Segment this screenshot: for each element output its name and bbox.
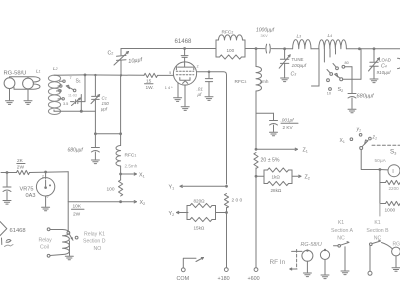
pointer to 6146B grid bbox=[0, 222, 7, 236]
plate supply bus wire bbox=[121, 48, 400, 50]
label S2 bbox=[338, 87, 344, 93]
svg-text:X2: X2 bbox=[140, 200, 146, 206]
svg-text:1mh: 1mh bbox=[260, 79, 269, 84]
svg-text:2W: 2W bbox=[17, 165, 25, 171]
label RG-58/U input coax bbox=[4, 71, 27, 77]
label 1mh bbox=[260, 79, 269, 84]
svg-text:3.5: 3.5 bbox=[63, 102, 68, 106]
svg-text:15kΩ: 15kΩ bbox=[194, 226, 205, 231]
junction dot VR75 top bbox=[44, 171, 47, 174]
tube VR75 pin 2 label bbox=[42, 175, 44, 179]
tube V1 pin 2 label bbox=[197, 65, 199, 69]
svg-text:C1: C1 bbox=[102, 96, 107, 101]
svg-text:TUNE: TUNE bbox=[292, 57, 304, 62]
chassis stub at COM bbox=[183, 258, 203, 268]
label S3 bbox=[390, 149, 397, 156]
ground under padder bbox=[348, 109, 356, 113]
label L3 bbox=[297, 34, 302, 40]
variable capacitor C2 bbox=[114, 49, 129, 76]
ground under tube beam pin bbox=[174, 98, 182, 102]
S1 band label 7 bbox=[70, 76, 72, 80]
tube V1 heater bbox=[183, 81, 188, 84]
svg-text:2 0 0: 2 0 0 bbox=[232, 198, 243, 204]
svg-text:2200: 2200 bbox=[389, 186, 400, 191]
tank coil L2 bbox=[48, 75, 60, 114]
svg-text:S1: S1 bbox=[76, 79, 81, 85]
test point arrow X2 bbox=[121, 200, 146, 206]
svg-text:1kΩ: 1kΩ bbox=[272, 174, 281, 179]
svg-text:L3: L3 bbox=[297, 34, 302, 40]
ground under filter cap bbox=[3, 201, 11, 205]
label RFC2 bbox=[222, 30, 234, 36]
svg-text:X1: X1 bbox=[340, 138, 345, 144]
label RF In bbox=[270, 259, 286, 266]
relay coil K1 bbox=[47, 228, 69, 257]
junction dot X1 bbox=[119, 173, 122, 176]
svg-text:+600: +600 bbox=[248, 276, 260, 282]
label VR75 0A3 bbox=[20, 187, 36, 200]
svg-text:RG-58/U: RG-58/U bbox=[4, 71, 27, 77]
label 2K 2W bbox=[17, 158, 25, 171]
choke RFC1 bbox=[116, 146, 121, 167]
section B lead to open jack bbox=[369, 246, 371, 272]
junction dot bus/C4 bbox=[373, 47, 376, 50]
ground under 680uuf grid cap bbox=[91, 160, 99, 164]
svg-text:z1: z1 bbox=[372, 135, 378, 141]
wire L2 top to grid line bbox=[54, 74, 86, 77]
relay K1 section B contact bbox=[370, 240, 393, 249]
svg-text:1000μμf: 1000μμf bbox=[256, 28, 275, 34]
label 15k ohm bbox=[194, 226, 205, 231]
label 820 ohm bbox=[194, 199, 206, 204]
label Relay Coil bbox=[39, 238, 53, 251]
svg-text:Relay: Relay bbox=[39, 238, 53, 244]
S1 band label 3.5 bbox=[63, 102, 68, 106]
svg-text:680μμf: 680μμf bbox=[68, 148, 84, 154]
svg-text:5: 5 bbox=[169, 71, 171, 75]
test point arrow Y1 bbox=[169, 185, 227, 191]
L4 tap lead 1 bbox=[312, 49, 320, 86]
resistor 1000 meter bbox=[380, 201, 400, 205]
wire shunt down bbox=[379, 204, 381, 217]
tube V1 beam plates bbox=[176, 66, 193, 70]
tube V1 screen grid (dashed) bbox=[176, 74, 194, 76]
capacitor .001uf 2KV bbox=[270, 121, 278, 132]
wire contact to ground bbox=[69, 241, 71, 256]
ground under cathode bbox=[181, 107, 189, 111]
resistor 2K 2W bbox=[17, 170, 30, 174]
tank coil L3 bbox=[293, 40, 311, 49]
wire 2K to VR75 bbox=[30, 171, 69, 174]
S2 contact a bbox=[333, 64, 338, 70]
resistor 100 grid bbox=[119, 180, 123, 196]
svg-text:5: 5 bbox=[47, 195, 49, 199]
link winding L1 / leads from jacks bbox=[10, 77, 41, 89]
S2 contact b bbox=[327, 70, 333, 76]
svg-text:L4: L4 bbox=[328, 33, 333, 39]
svg-text:80: 80 bbox=[345, 61, 349, 65]
label C1 150 uuf bbox=[100, 96, 109, 112]
svg-text:X1: X1 bbox=[139, 173, 145, 179]
svg-text:10: 10 bbox=[327, 92, 331, 96]
band switch S1 label bbox=[76, 79, 81, 85]
S2 contact 10 bbox=[327, 88, 332, 96]
wire L2 bottom return bbox=[54, 110, 95, 111]
label Relay K1 Section D NO bbox=[83, 232, 106, 253]
S1 trimmer capacitor bbox=[71, 98, 86, 106]
svg-text:RFC1: RFC1 bbox=[125, 153, 137, 159]
meter shunt wire bbox=[379, 170, 381, 204]
test point arrow Y2 bbox=[169, 211, 189, 217]
S3 contact Y1 bbox=[356, 127, 362, 137]
label 100 damping bbox=[227, 48, 235, 53]
svg-text:Z1: Z1 bbox=[303, 148, 308, 154]
svg-text:C4: C4 bbox=[381, 64, 387, 70]
svg-text:Section A: Section A bbox=[331, 228, 353, 234]
choke RFC3 bbox=[256, 49, 262, 150]
label C2 bbox=[108, 51, 114, 57]
svg-text:NC: NC bbox=[337, 236, 345, 242]
resistor 100 damping bbox=[216, 49, 245, 60]
S1 wiper arm bbox=[66, 85, 76, 92]
trimmer C1 bbox=[91, 75, 100, 134]
svg-text:1 4 *: 1 4 * bbox=[165, 86, 173, 90]
svg-text:1000: 1000 bbox=[385, 208, 396, 214]
variable capacitor C4 LOAD bbox=[369, 49, 380, 79]
label RG-58/U output bbox=[301, 242, 322, 248]
svg-text:10K: 10K bbox=[73, 204, 82, 210]
wire C1 bottom to RFC1 column bbox=[95, 133, 120, 135]
wire +180 feed bbox=[226, 208, 228, 268]
tank coil L2 label bbox=[53, 66, 58, 72]
tube VR75 pin 5 label bbox=[47, 195, 49, 199]
svg-text:7: 7 bbox=[70, 76, 72, 80]
label 61468 note bbox=[10, 228, 26, 234]
junction dot Y1 bbox=[225, 185, 228, 188]
resistor 15 ohm 1W bbox=[144, 73, 158, 77]
capacitor .01uf screen bypass bbox=[205, 72, 212, 96]
S2 contact 80 bbox=[342, 61, 352, 68]
label K1 Section A NC bbox=[331, 220, 353, 242]
ground under section D bbox=[65, 256, 73, 260]
section A lead to ground bbox=[344, 247, 346, 270]
svg-text:Z2: Z2 bbox=[305, 175, 310, 181]
svg-text:K1: K1 bbox=[338, 220, 344, 226]
S1 band label 11-93 bbox=[68, 93, 77, 97]
svg-text:28kΩ: 28kΩ bbox=[271, 188, 282, 193]
svg-text:100: 100 bbox=[227, 48, 235, 53]
svg-text:2.5mh: 2.5mh bbox=[125, 164, 138, 169]
label 28k ohm bbox=[271, 188, 282, 193]
label 1000 bbox=[385, 208, 396, 214]
svg-text:50μA: 50μA bbox=[375, 158, 387, 164]
junction dot bus/tube top cap bbox=[183, 47, 186, 50]
screen wire to +180 column bbox=[197, 72, 227, 184]
tank coil L4 bbox=[319, 40, 347, 49]
coax jack J3 bbox=[302, 249, 313, 272]
junction dot Y2 node bbox=[225, 211, 228, 214]
junction dot bus/RFC3 bbox=[255, 47, 258, 50]
wire 15ohm to grid pin bbox=[158, 74, 174, 76]
svg-text:Section B: Section B bbox=[366, 228, 389, 234]
label 10K 2W bbox=[72, 204, 85, 218]
ground under J5 bbox=[392, 268, 400, 272]
svg-text:COM: COM bbox=[177, 276, 190, 282]
test point arrow X1 bbox=[121, 173, 145, 179]
svg-text:RF In: RF In bbox=[270, 259, 286, 266]
ground under C4 bbox=[370, 79, 378, 83]
capacitor 680uuf padder bbox=[348, 94, 356, 109]
label 61468 tube bbox=[175, 38, 193, 45]
svg-text:RFC3: RFC3 bbox=[235, 79, 247, 85]
ground under J4 bbox=[321, 275, 329, 279]
S3 contact X1 bbox=[340, 138, 353, 144]
svg-text:C2: C2 bbox=[108, 51, 114, 57]
junction dot meter node bbox=[379, 168, 382, 171]
coax jack J4 bbox=[320, 249, 329, 274]
wire rotor to output node bbox=[343, 49, 361, 79]
label 2200 bbox=[389, 186, 400, 191]
L4 tap lead 2 bbox=[323, 49, 325, 62]
svg-text:Y2: Y2 bbox=[169, 211, 175, 217]
svg-text:L1: L1 bbox=[36, 69, 41, 75]
meter shunt 1k/28k box bbox=[256, 168, 292, 186]
label 10uuf bbox=[128, 57, 144, 65]
tube V1 envelope bbox=[173, 62, 196, 85]
junction dot screen bypass bbox=[208, 71, 211, 74]
junction dot Z2 node bbox=[255, 175, 258, 178]
dashed relay actuate link bbox=[290, 250, 297, 271]
svg-text:S3: S3 bbox=[390, 149, 397, 156]
ground under screen bypass cap bbox=[205, 97, 213, 101]
label RFC3 bbox=[235, 79, 247, 85]
wire trimmer right branch bbox=[84, 75, 86, 102]
label 1000uuf 3KV bbox=[256, 28, 275, 38]
svg-text:61468: 61468 bbox=[175, 38, 193, 45]
label 200 bbox=[232, 198, 243, 204]
junction dot Z1 bbox=[255, 148, 258, 151]
handwritten note squiggle bbox=[2, 238, 14, 247]
ground under 2KV cap bbox=[270, 132, 278, 136]
resistor 2200 meter bbox=[380, 180, 400, 184]
test point arrow Z2 bbox=[292, 175, 310, 181]
wire 80m tap to padder bbox=[351, 67, 353, 93]
S1 tap contact a bbox=[60, 80, 66, 82]
label 2.5mh bbox=[125, 164, 138, 169]
svg-text:Y1: Y1 bbox=[169, 185, 175, 191]
label 20+-5pct bbox=[261, 158, 280, 164]
resistor 20 ohm 5pct bbox=[254, 153, 258, 169]
coax jack J2 bbox=[23, 78, 34, 100]
relay K1 section D contact bbox=[67, 231, 78, 240]
label 1k ohm bbox=[272, 174, 281, 179]
filter cap at left edge bbox=[3, 173, 11, 200]
tube VR75/0A3 envelope bbox=[36, 178, 54, 196]
svg-text:RG-58/U: RG-58/U bbox=[301, 242, 322, 248]
wire S1 pivot down bbox=[80, 95, 82, 112]
tube V1 pins 1 4 label bbox=[165, 86, 173, 90]
label .001uf 2KV bbox=[281, 118, 299, 131]
wire to plate bypass cap bbox=[256, 113, 274, 120]
svg-text:100: 100 bbox=[107, 187, 115, 193]
svg-text:+180: +180 bbox=[218, 276, 230, 282]
meter shunt 820/15k box bbox=[187, 203, 227, 221]
resistor 200 ohm bbox=[224, 194, 228, 209]
svg-text:K1: K1 bbox=[374, 220, 380, 226]
junction dot VR rail left bbox=[6, 171, 9, 174]
capacitor 680uuf grid bbox=[91, 134, 99, 160]
variable capacitor C3 TUNE bbox=[279, 49, 290, 78]
svg-text:3KV: 3KV bbox=[261, 34, 269, 38]
svg-text:I: I bbox=[392, 169, 394, 175]
label 680uuf grid bbox=[68, 148, 84, 154]
svg-text:61468: 61468 bbox=[10, 228, 26, 234]
capacitor 1000uuf blocking bbox=[266, 44, 270, 53]
junction dot grid/C1 bbox=[94, 74, 96, 76]
svg-text:680μμf: 680μμf bbox=[357, 93, 375, 99]
svg-text:150: 150 bbox=[102, 101, 110, 106]
svg-text:VR75: VR75 bbox=[20, 187, 34, 193]
link winding L1 label bbox=[36, 69, 41, 75]
label 50uA bbox=[375, 158, 387, 164]
S3 contact Z1 bbox=[369, 135, 377, 141]
terminal COM bbox=[177, 268, 190, 282]
meter M1 bbox=[380, 165, 400, 177]
L4 tap lead 4 bbox=[335, 49, 337, 54]
svg-text:1W.: 1W. bbox=[146, 85, 154, 91]
svg-text:Coil: Coil bbox=[40, 245, 49, 251]
open terminal under section B bbox=[368, 271, 372, 275]
wire stub to jack bbox=[292, 250, 302, 252]
svg-text:2W: 2W bbox=[73, 212, 81, 218]
bias wire to relay bbox=[68, 201, 120, 203]
label TUNE C3 bbox=[291, 57, 307, 78]
choke RFC2 bbox=[216, 35, 245, 49]
svg-text:NO: NO bbox=[94, 246, 102, 252]
svg-text:Section D: Section D bbox=[83, 239, 106, 245]
svg-text:11-93: 11-93 bbox=[68, 93, 77, 97]
terminal +600 bbox=[248, 268, 260, 282]
junction dot grid return bbox=[119, 132, 122, 135]
wire +600 feed bbox=[255, 168, 257, 268]
svg-text:Relay K1: Relay K1 bbox=[84, 232, 105, 238]
svg-text:μf: μf bbox=[197, 92, 203, 97]
svg-text:y1: y1 bbox=[356, 127, 362, 133]
label 680uuf padder bbox=[357, 93, 375, 99]
svg-text:100μμf: 100μμf bbox=[292, 63, 307, 69]
svg-text:10μμf: 10μμf bbox=[128, 57, 144, 65]
wire VR75 rail to relay contact bbox=[67, 172, 69, 231]
L4 tap lead 3 bbox=[329, 49, 331, 57]
tube VR75 internal bbox=[44, 180, 51, 189]
tube V1 control grid (dashed) bbox=[176, 70, 194, 72]
ground under J1 bbox=[6, 101, 14, 105]
wire VR75 rail bbox=[1, 172, 17, 174]
junction dot grid/C2 bbox=[120, 74, 122, 76]
grid wire bbox=[85, 74, 144, 76]
ground under VR75 bbox=[42, 207, 50, 211]
tube V1 cathode bbox=[180, 78, 190, 81]
svg-text:.001μf: .001μf bbox=[281, 118, 295, 123]
label .01 uf bbox=[197, 87, 204, 98]
S3 wiper bbox=[360, 140, 368, 150]
svg-text:2: 2 bbox=[197, 65, 199, 69]
junction dot L2 return bbox=[80, 110, 83, 113]
svg-text:0A3: 0A3 bbox=[26, 193, 36, 199]
S2 rotor and wiper bbox=[335, 73, 343, 80]
tube V1 plate bbox=[178, 66, 193, 68]
coax jack J5 right edge bbox=[392, 242, 400, 268]
tube V1 beam pin lead bbox=[177, 83, 179, 97]
coax jack J1 bbox=[4, 78, 15, 100]
S1 tap contact b bbox=[58, 85, 62, 87]
junction dot bus/C3 bbox=[283, 47, 286, 50]
svg-text:.01: .01 bbox=[197, 87, 204, 92]
relay K1 section A contact bbox=[334, 242, 350, 248]
terminal +180 bbox=[218, 268, 230, 282]
label 15 1W bbox=[145, 78, 154, 91]
svg-text:20 ± 5%: 20 ± 5% bbox=[261, 158, 280, 164]
svg-text:L2: L2 bbox=[53, 66, 58, 72]
test point arrow Z1 bbox=[256, 148, 308, 154]
label 100 grid bbox=[107, 187, 115, 193]
ground under J3 bbox=[303, 273, 311, 277]
svg-text:LOAD: LOAD bbox=[379, 58, 391, 63]
label K1 Section B NC bbox=[366, 220, 389, 242]
svg-text:820Ω: 820Ω bbox=[194, 199, 206, 204]
ground under J2 bbox=[24, 101, 32, 105]
svg-text:2: 2 bbox=[42, 175, 44, 179]
ground under section A bbox=[341, 271, 349, 275]
S3 mechanical dashed link bbox=[372, 144, 400, 146]
svg-text:2 KV: 2 KV bbox=[283, 125, 294, 130]
grid return wire bbox=[120, 75, 122, 145]
svg-text:910μμf: 910μμf bbox=[377, 70, 392, 75]
junction dot bus/L4 output bbox=[358, 47, 361, 50]
tube V1 top cap lead bbox=[181, 49, 188, 68]
svg-text:C3: C3 bbox=[291, 72, 297, 78]
svg-text:μμf: μμf bbox=[100, 107, 108, 112]
wire RFC1 to X1 bbox=[120, 166, 122, 180]
label LOAD C4 910uuf bbox=[377, 58, 392, 75]
svg-text:RG: RG bbox=[393, 242, 400, 248]
S2 contact c bbox=[327, 79, 330, 82]
partial jack at right edge bbox=[398, 58, 400, 68]
tube V1 pin 5 label bbox=[169, 71, 171, 75]
junction dot C1 bottom bbox=[94, 132, 97, 135]
label L4 bbox=[328, 33, 333, 39]
tube VR75 cathode lead bbox=[45, 196, 47, 207]
svg-text:S2: S2 bbox=[338, 87, 344, 93]
wire S3 to meter bbox=[361, 150, 380, 170]
S1 tap contact c bbox=[57, 90, 62, 92]
S1 tap contact d bbox=[58, 98, 64, 100]
tube V1 cathode lead bbox=[184, 85, 186, 106]
ground under C3 bbox=[281, 78, 289, 82]
label RFC1 bbox=[125, 153, 137, 159]
junction dot X2 bbox=[119, 200, 122, 203]
tube VR75 anode lead bbox=[45, 172, 47, 179]
